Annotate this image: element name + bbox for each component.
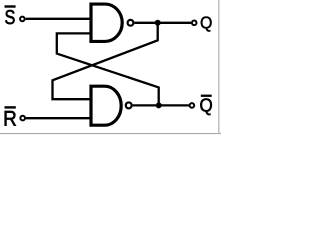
junction node Q — [155, 20, 161, 26]
label Q — [201, 17, 212, 32]
wire crossover B: Q-bar node to U1 lower input — [57, 33, 159, 105]
border right — [218, 0, 219, 134]
wire S input — [26, 18, 91, 20]
bubble U1 — [128, 20, 134, 26]
nand gate U1 — [91, 4, 122, 41]
label S-bar — [5, 5, 16, 24]
output terminal Q-bar — [190, 103, 195, 108]
label R-bar — [5, 106, 16, 125]
label Q-bar — [200, 95, 212, 115]
wire U1 output to Q — [134, 22, 191, 24]
wire R input — [26, 117, 91, 119]
wire U2 output to Q-bar — [133, 104, 189, 106]
border bottom — [0, 133, 221, 134]
output terminal Q — [192, 21, 197, 26]
nand gate U2 — [91, 86, 121, 125]
input terminal S — [20, 17, 25, 22]
bubble U2 — [126, 102, 132, 108]
input terminal R — [20, 116, 25, 121]
junction node Q-bar — [156, 102, 162, 108]
wire crossover A: Q node to U2 upper input — [53, 23, 158, 99]
